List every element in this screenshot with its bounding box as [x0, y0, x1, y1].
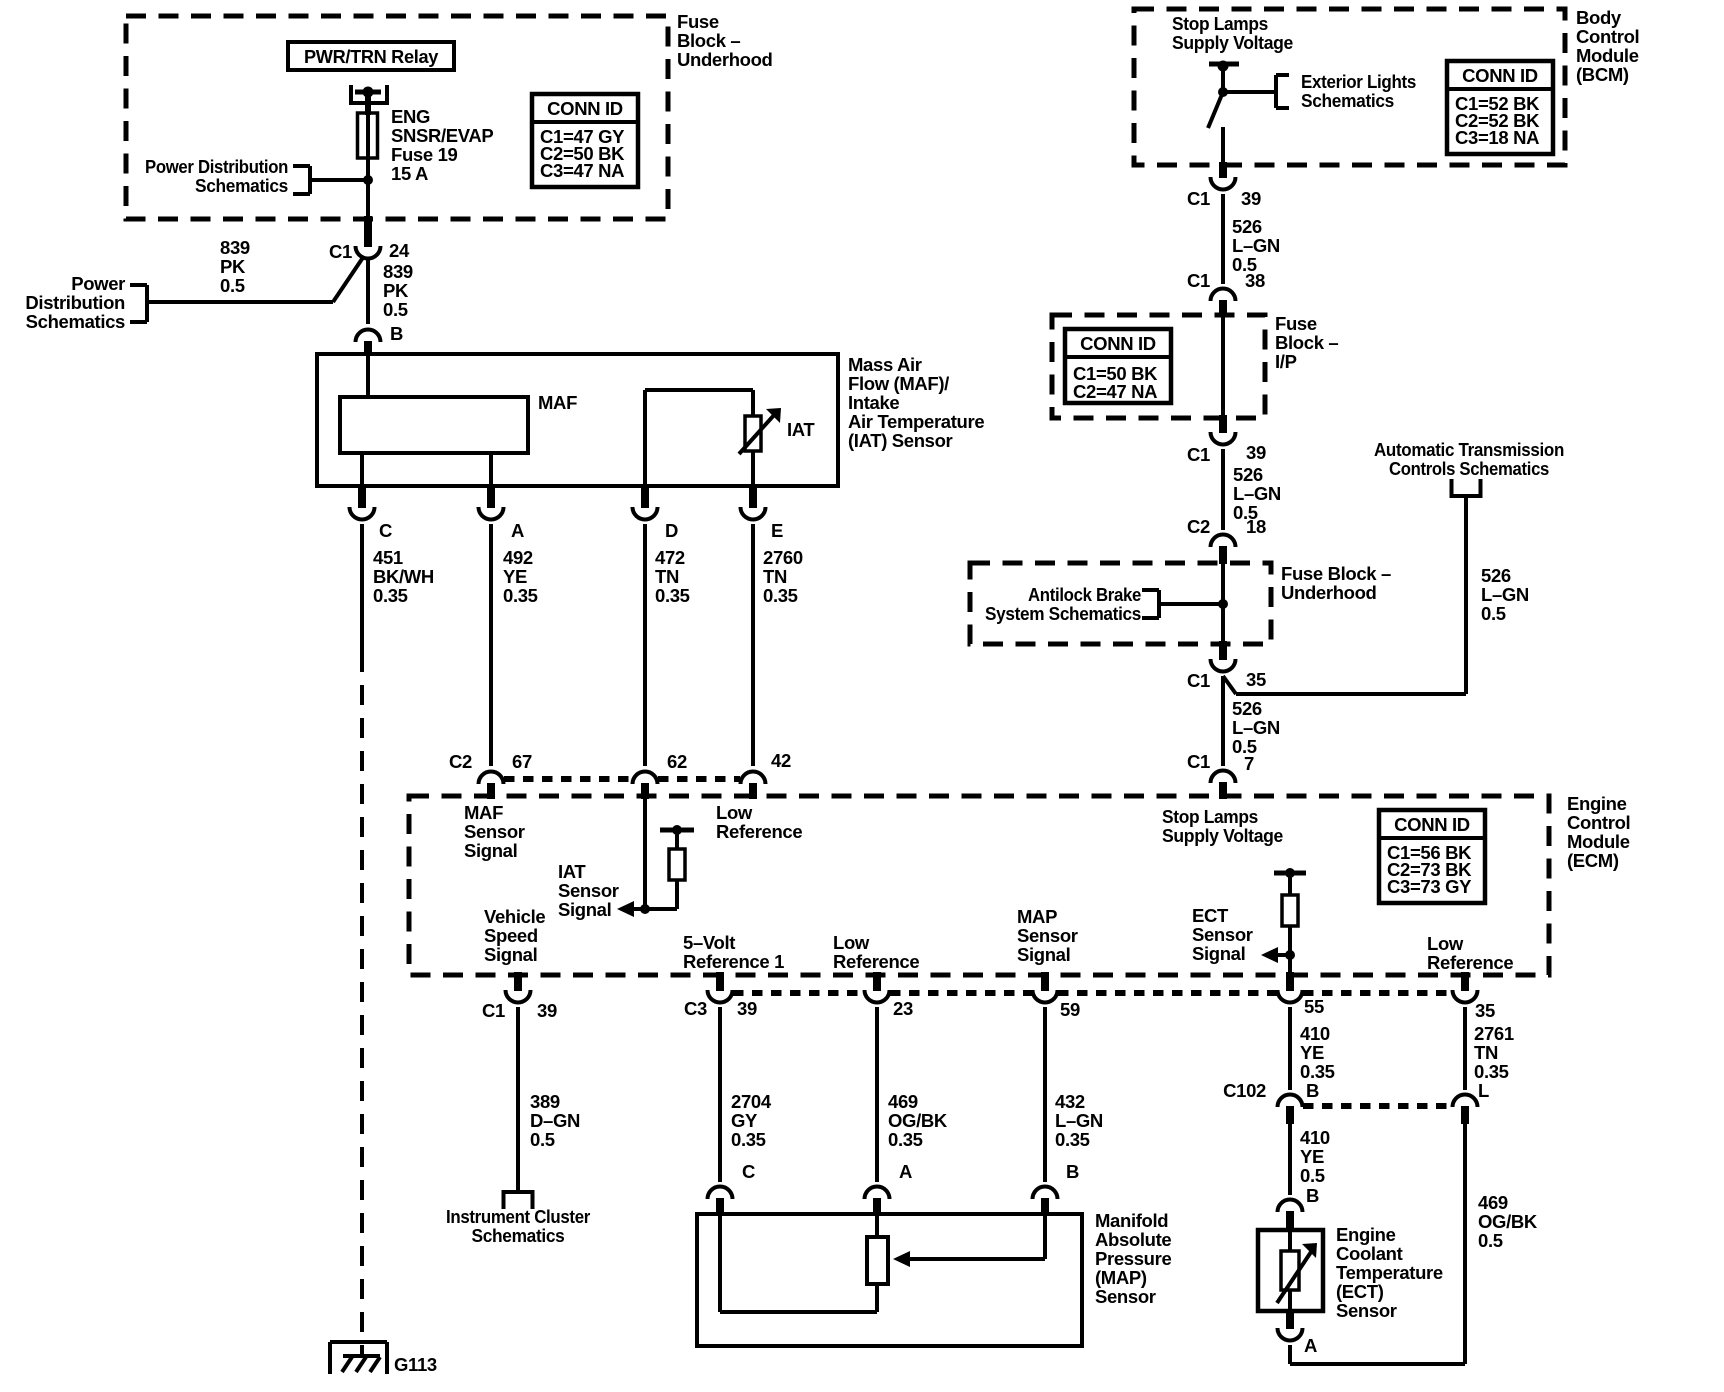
svg-text:Fuse: Fuse [1275, 313, 1317, 334]
net label IAT Sensor Signal [558, 861, 619, 920]
connector C1 pin 35 [1187, 659, 1266, 691]
connector bus ECM bottom row [733, 990, 1452, 996]
svg-text:PWR/TRN Relay: PWR/TRN Relay [304, 46, 439, 67]
connector ECT pin B [1278, 1185, 1320, 1232]
svg-text:389: 389 [530, 1091, 560, 1112]
svg-text:D: D [665, 520, 678, 541]
wire 472 TN to ECM [643, 524, 647, 766]
svg-text:469: 469 [888, 1091, 918, 1112]
svg-text:Fuse 19: Fuse 19 [391, 144, 458, 165]
wire ABS tap [1159, 602, 1223, 606]
svg-text:Reference: Reference [716, 821, 802, 842]
svg-text:L: L [1478, 1080, 1489, 1101]
svg-text:C1: C1 [1187, 188, 1210, 209]
svg-text:451: 451 [373, 547, 403, 568]
svg-text:Sensor: Sensor [464, 821, 525, 842]
svg-text:Control: Control [1567, 812, 1630, 833]
svg-text:35: 35 [1246, 669, 1266, 690]
svg-text:839: 839 [383, 261, 413, 282]
svg-text:39: 39 [737, 998, 757, 1019]
fuse block underhood (ABS) module box [970, 563, 1271, 644]
svg-text:A: A [1304, 1335, 1317, 1356]
off-page ref Power Distribution Schematics (fuse block) [145, 156, 310, 196]
svg-text:Power: Power [71, 273, 125, 294]
svg-text:Intake: Intake [848, 392, 899, 413]
svg-text:24: 24 [389, 240, 410, 261]
svg-text:18: 18 [1246, 516, 1266, 537]
svg-text:Manifold: Manifold [1095, 1210, 1168, 1231]
svg-text:A: A [899, 1161, 912, 1182]
svg-text:62: 62 [667, 751, 687, 772]
svg-text:Signal: Signal [1017, 944, 1070, 965]
body control module box [1134, 9, 1565, 165]
svg-text:B: B [1306, 1185, 1319, 1206]
svg-text:39: 39 [1241, 188, 1261, 209]
svg-text:0.35: 0.35 [731, 1129, 766, 1150]
svg-text:Stop Lamps: Stop Lamps [1162, 806, 1258, 827]
svg-text:Vehicle: Vehicle [484, 906, 545, 927]
svg-text:C3: C3 [684, 998, 707, 1019]
thermistor ECT [1277, 1230, 1317, 1311]
wire MAF pin A internal [489, 453, 493, 486]
svg-text:0.5: 0.5 [1481, 603, 1506, 624]
svg-text:Distribution: Distribution [25, 292, 125, 313]
svg-text:67: 67 [512, 751, 532, 772]
svg-text:IAT: IAT [558, 861, 586, 882]
svg-text:526: 526 [1232, 698, 1262, 719]
wire 451 BK/WH solid segment [360, 524, 364, 652]
svg-text:59: 59 [1060, 999, 1080, 1020]
switch blade [1208, 92, 1223, 128]
MAF element box [340, 392, 577, 453]
svg-text:C2=47 NA: C2=47 NA [1073, 381, 1157, 402]
junction dot ECT signal [1285, 950, 1295, 960]
svg-text:Sensor: Sensor [1095, 1286, 1156, 1307]
svg-text:C1: C1 [1187, 670, 1210, 691]
connector C2 pin 67 [449, 751, 532, 799]
svg-text:Engine: Engine [1567, 793, 1627, 814]
relay K terminal posts [351, 85, 387, 105]
svg-text:Stop Lamps: Stop Lamps [1172, 13, 1268, 34]
net label ECT Sensor Signal [1192, 905, 1253, 964]
fuse block underhood module box [126, 16, 668, 219]
svg-text:0.5: 0.5 [1300, 1165, 1325, 1186]
svg-text:C3=18 NA: C3=18 NA [1455, 127, 1539, 148]
connector C1 pin 39 (IP out) [1187, 432, 1266, 465]
wire label 472 TN 0.35 [655, 547, 690, 606]
svg-text:Absolute: Absolute [1095, 1229, 1171, 1250]
connector C1 pin 24 [329, 240, 410, 262]
svg-text:39: 39 [537, 1000, 557, 1021]
wire label 526 L-GN 0.5 (BCM to IP) [1232, 216, 1280, 275]
wire label 451 BK/WH 0.35 [373, 547, 434, 606]
wire label 839 PK 0.5 (branch) [220, 237, 250, 296]
svg-text:Reference 1: Reference 1 [683, 951, 784, 972]
wire label 410 YE 0.5 [1300, 1127, 1330, 1186]
svg-text:C2: C2 [449, 751, 472, 772]
fuse block IP conn id table [1065, 329, 1171, 403]
svg-text:Speed: Speed [484, 925, 538, 946]
net label 5-Volt Reference 1 [683, 932, 784, 972]
connector ECT pin A [1278, 1311, 1318, 1356]
svg-text:Low: Low [833, 932, 870, 953]
IAT top wire [645, 388, 753, 392]
svg-text:23: 23 [893, 998, 913, 1019]
svg-text:GY: GY [731, 1110, 758, 1131]
wire label 2760 TN 0.35 [763, 547, 803, 606]
net label Stop Lamps Supply Voltage (ECM) [1162, 806, 1283, 846]
wire IAT pin D internal [643, 390, 647, 486]
svg-text:42: 42 [771, 750, 791, 771]
svg-text:C1: C1 [1187, 444, 1210, 465]
wire label 2704 GY 0.35 [731, 1091, 772, 1150]
svg-text:C1: C1 [1187, 751, 1210, 772]
svg-text:Underhood: Underhood [677, 49, 773, 70]
svg-text:410: 410 [1300, 1127, 1330, 1148]
svg-text:0.35: 0.35 [763, 585, 798, 606]
svg-text:0.35: 0.35 [1300, 1061, 1335, 1082]
junction dot IAT signal [640, 904, 650, 914]
sensor label Mass Air Flow (MAF)/ Intake Air Temperature (IAT) Sensor [848, 354, 984, 451]
wire MAP pin B internal [1043, 1214, 1047, 1259]
wire to exterior lights [1223, 90, 1276, 94]
svg-text:Block –: Block – [1275, 332, 1338, 353]
svg-text:Schematics: Schematics [1301, 90, 1394, 111]
wire label 389 D-GN 0.5 [530, 1091, 580, 1150]
svg-text:L–GN: L–GN [1233, 483, 1281, 504]
wire label 469 OG/BK 0.5 [1478, 1192, 1538, 1251]
engine control module box [409, 796, 1549, 975]
svg-text:MAF: MAF [538, 392, 577, 413]
relay K PWR/TRN Relay label box [288, 42, 454, 70]
fuse F19 ENG SNSR/EVAP 15A [358, 113, 378, 158]
junction dot fuse wire [363, 175, 373, 185]
module label Body Control Module (BCM) [1576, 7, 1639, 85]
svg-text:15 A: 15 A [391, 163, 428, 184]
svg-text:0.5: 0.5 [1478, 1230, 1503, 1251]
wire power distribution tap [310, 178, 368, 182]
svg-text:System Schematics: System Schematics [985, 603, 1141, 624]
svg-text:Pressure: Pressure [1095, 1248, 1171, 1269]
wire ECT return loop [1290, 1124, 1465, 1364]
off-page ref Instrument Cluster Schematics [446, 1192, 590, 1246]
net label Low Reference (pin 35) [1427, 933, 1513, 973]
svg-text:TN: TN [655, 566, 679, 587]
svg-text:A: A [511, 520, 524, 541]
svg-text:5–Volt: 5–Volt [683, 932, 735, 953]
svg-text:0.35: 0.35 [888, 1129, 923, 1150]
svg-text:L–GN: L–GN [1232, 717, 1280, 738]
fuse block underhood conn id table [532, 94, 638, 187]
svg-text:0.35: 0.35 [1474, 1061, 1509, 1082]
wire 526 segment 2 [1221, 449, 1225, 530]
module label Engine Control Module (ECM) [1567, 793, 1630, 871]
svg-text:(MAP): (MAP) [1095, 1267, 1147, 1288]
connector MAP pin B [1033, 1161, 1080, 1216]
pull-up resistor IAT [660, 825, 694, 909]
svg-text:L–GN: L–GN [1481, 584, 1529, 605]
svg-text:Signal: Signal [484, 944, 537, 965]
wire label 526 L-GN 0.5 (ATC) [1481, 565, 1529, 624]
wire through fuse block IP [1221, 317, 1225, 433]
svg-text:410: 410 [1300, 1023, 1330, 1044]
wire 451 BK/WH dashed segment to ground [360, 652, 364, 1356]
fuse block IP module box [1052, 315, 1265, 418]
svg-text:Supply Voltage: Supply Voltage [1172, 32, 1293, 53]
module label Fuse Block - I/P [1275, 313, 1338, 372]
svg-text:7: 7 [1244, 753, 1254, 774]
svg-text:BK/WH: BK/WH [373, 566, 434, 587]
svg-text:Reference: Reference [1427, 952, 1513, 973]
sensor label Manifold Absolute Pressure (MAP) Sensor [1095, 1210, 1171, 1307]
svg-text:526: 526 [1481, 565, 1511, 586]
off-page ref Power Distribution Schematics (left) [25, 273, 147, 332]
wire switch to C1-39 [1221, 127, 1225, 178]
svg-text:C102: C102 [1223, 1080, 1266, 1101]
svg-text:Sensor: Sensor [1336, 1300, 1397, 1321]
module label Fuse Block - Underhood [677, 11, 773, 70]
svg-text:Automatic Transmission: Automatic Transmission [1374, 439, 1564, 460]
wire B into MAF element [366, 356, 370, 397]
ECT sensor box [1258, 1230, 1323, 1311]
fuse value label ENG SNSR/EVAP Fuse 19 15 A [391, 106, 493, 184]
svg-text:0.35: 0.35 [1055, 1129, 1090, 1150]
svg-text:MAP: MAP [1017, 906, 1057, 927]
svg-text:Air Temperature: Air Temperature [848, 411, 984, 432]
wire 492 YE to ECM [489, 524, 493, 766]
net label MAF Sensor Signal [464, 802, 525, 861]
svg-text:Sensor: Sensor [1192, 924, 1253, 945]
svg-text:C3=73 GY: C3=73 GY [1387, 876, 1472, 897]
connector C102 pin L [1453, 1080, 1490, 1124]
svg-text:C1: C1 [482, 1000, 505, 1021]
svg-text:ENG: ENG [391, 106, 430, 127]
wire through fuse block underhood [1221, 564, 1225, 660]
connector bus C2 row [504, 776, 740, 782]
connector pin 35 [1453, 972, 1495, 1021]
svg-text:839: 839 [220, 237, 250, 258]
svg-text:2761: 2761 [1474, 1023, 1514, 1044]
svg-text:Antilock Brake: Antilock Brake [1028, 584, 1141, 605]
svg-text:(ECT): (ECT) [1336, 1281, 1384, 1302]
connector pin A [479, 486, 525, 541]
svg-text:Schematics: Schematics [26, 311, 125, 332]
junction dot ABS tap [1218, 599, 1228, 609]
svg-text:Mass Air: Mass Air [848, 354, 922, 375]
module label Fuse Block - Underhood [1281, 563, 1391, 603]
svg-text:C1: C1 [1187, 270, 1210, 291]
svg-text:Controls Schematics: Controls Schematics [1389, 458, 1549, 479]
wire 2760 TN to ECM [751, 524, 755, 766]
connector C102 pin B [1223, 1080, 1319, 1124]
connector MAP pin A [865, 1161, 913, 1216]
svg-text:2760: 2760 [763, 547, 803, 568]
svg-text:E: E [771, 520, 783, 541]
BCM conn id table [1447, 61, 1553, 154]
connector C1 pin 39 (vehicle speed) [482, 972, 557, 1021]
svg-text:Signal: Signal [1192, 943, 1245, 964]
wire label 410 YE 0.35 [1300, 1023, 1335, 1082]
svg-text:TN: TN [763, 566, 787, 587]
svg-text:I/P: I/P [1275, 351, 1297, 372]
ground G113 [330, 1342, 437, 1375]
svg-text:39: 39 [1246, 442, 1266, 463]
svg-text:Schematics: Schematics [472, 1225, 565, 1246]
svg-text:Signal: Signal [464, 840, 517, 861]
wire MAP pin C internal [720, 1214, 877, 1312]
svg-text:0.35: 0.35 [655, 585, 690, 606]
connector MAP pin C [708, 1161, 756, 1216]
svg-text:YE: YE [1300, 1146, 1324, 1167]
svg-text:ECT: ECT [1192, 905, 1229, 926]
wire IAT signal inside ECM [643, 799, 647, 909]
svg-text:CONN ID: CONN ID [1462, 65, 1538, 86]
svg-text:(BCM): (BCM) [1576, 64, 1629, 85]
connector pin C [350, 486, 393, 541]
svg-text:Underhood: Underhood [1281, 582, 1377, 603]
svg-text:Module: Module [1576, 45, 1639, 66]
svg-text:2704: 2704 [731, 1091, 772, 1112]
svg-text:B: B [390, 323, 403, 344]
svg-text:MAF: MAF [464, 802, 503, 823]
svg-text:Engine: Engine [1336, 1224, 1396, 1245]
svg-text:C: C [379, 520, 392, 541]
wire label 492 YE 0.35 [503, 547, 538, 606]
off-page ref Automatic Transmission Controls Schematics [1374, 439, 1564, 496]
svg-text:CONN ID: CONN ID [547, 98, 623, 119]
svg-text:B: B [1306, 1080, 1319, 1101]
wire C1-24 to connector B [366, 258, 370, 324]
svg-text:0.35: 0.35 [373, 585, 408, 606]
svg-text:Fuse: Fuse [677, 11, 719, 32]
net label Stop Lamps Supply Voltage (BCM) [1172, 13, 1293, 53]
svg-text:472: 472 [655, 547, 685, 568]
svg-text:L–GN: L–GN [1232, 235, 1280, 256]
svg-text:L–GN: L–GN [1055, 1110, 1103, 1131]
wire label 432 L-GN 0.35 [1055, 1091, 1103, 1150]
connector pin E [741, 486, 784, 541]
connector pin 23 [865, 972, 913, 1019]
wire fuse to connector C1 [366, 158, 370, 247]
svg-text:B: B [1066, 1161, 1079, 1182]
svg-text:Coolant: Coolant [1336, 1243, 1403, 1264]
svg-text:Schematics: Schematics [195, 175, 288, 196]
connector C1 pin 7 [1187, 751, 1254, 799]
wire label 839 PK 0.5 (to MAF) [383, 261, 413, 320]
svg-text:C1: C1 [329, 241, 352, 262]
wire from ATC [1236, 496, 1466, 694]
wire ECT signal arrow [1261, 947, 1290, 963]
svg-text:OG/BK: OG/BK [888, 1110, 948, 1131]
junction dot switch [1218, 87, 1228, 97]
svg-text:526: 526 [1232, 216, 1262, 237]
svg-text:CONN ID: CONN ID [1394, 814, 1470, 835]
wire switch [1221, 64, 1225, 92]
svg-text:35: 35 [1475, 1000, 1495, 1021]
potentiometer MAP [867, 1214, 888, 1312]
svg-text:CONN ID: CONN ID [1080, 333, 1156, 354]
net label MAP Sensor Signal [1017, 906, 1078, 965]
net label Low Reference (MAP) [833, 932, 919, 972]
svg-text:YE: YE [1300, 1042, 1324, 1063]
svg-text:PK: PK [220, 256, 246, 277]
net label Vehicle Speed Signal [484, 906, 545, 965]
svg-text:C: C [742, 1161, 755, 1182]
connector C1 pin 38 [1187, 270, 1265, 317]
svg-text:D–GN: D–GN [530, 1110, 580, 1131]
svg-text:Power Distribution: Power Distribution [145, 156, 288, 177]
svg-text:G113: G113 [394, 1354, 437, 1375]
svg-text:492: 492 [503, 547, 533, 568]
wire label 526 L-GN 0.5 (IP to underhood) [1233, 464, 1281, 523]
MAP wiper arrow [893, 1251, 1045, 1267]
svg-text:Low: Low [1427, 933, 1464, 954]
svg-text:432: 432 [1055, 1091, 1085, 1112]
ECM conn id table [1379, 810, 1485, 903]
svg-text:(IAT) Sensor: (IAT) Sensor [848, 430, 953, 451]
svg-text:Low: Low [716, 802, 753, 823]
connector pin D [633, 486, 679, 541]
svg-text:IAT: IAT [787, 419, 815, 440]
svg-text:526: 526 [1233, 464, 1263, 485]
switch supply bar [1209, 61, 1239, 72]
wire MAF pin C internal [360, 453, 364, 486]
connector C2 pin 18 [1187, 516, 1266, 564]
off-page ref Exterior Lights Schematics [1276, 71, 1416, 111]
svg-text:Temperature: Temperature [1336, 1262, 1443, 1283]
off-page ref Antilock Brake System Schematics [985, 584, 1159, 624]
svg-text:C3=47 NA: C3=47 NA [540, 160, 624, 181]
svg-text:Sensor: Sensor [1017, 925, 1078, 946]
wire label 469 OG/BK 0.35 [888, 1091, 948, 1150]
svg-text:0.5: 0.5 [220, 275, 245, 296]
wire relay to fuse [365, 92, 371, 115]
svg-text:C2: C2 [1187, 516, 1210, 537]
svg-text:SNSR/EVAP: SNSR/EVAP [391, 125, 493, 146]
sensor label Engine Coolant Temperature (ECT) Sensor [1336, 1224, 1443, 1321]
svg-text:Reference: Reference [833, 951, 919, 972]
wire 389 D-GN to instrument cluster [516, 1007, 520, 1192]
connector pin 42 [741, 750, 791, 799]
svg-text:Signal: Signal [558, 899, 611, 920]
svg-text:TN: TN [1474, 1042, 1498, 1063]
wire IAT signal arrow [617, 901, 677, 917]
svg-text:OG/BK: OG/BK [1478, 1211, 1538, 1232]
wire branch to power distribution [148, 256, 364, 302]
svg-text:(ECM): (ECM) [1567, 850, 1619, 871]
wire 2704 GY [718, 1007, 722, 1182]
svg-text:YE: YE [503, 566, 527, 587]
connector bus C102 [1303, 1103, 1452, 1109]
wire merge ATC into 526 [1223, 676, 1236, 694]
net label Low Reference (IAT) [716, 802, 802, 842]
connector C1 pin 39 (BCM) [1187, 177, 1261, 209]
svg-text:Module: Module [1567, 831, 1630, 852]
svg-text:0.5: 0.5 [383, 299, 408, 320]
connector B of MAF sensor [356, 323, 404, 356]
wire 526 segment 1 [1221, 194, 1225, 284]
thermistor IAT [739, 390, 815, 486]
svg-text:Sensor: Sensor [558, 880, 619, 901]
svg-text:Flow (MAF)/: Flow (MAF)/ [848, 373, 949, 394]
svg-text:Exterior Lights: Exterior Lights [1301, 71, 1416, 92]
svg-text:Fuse Block –: Fuse Block – [1281, 563, 1391, 584]
connector pin 62 [633, 751, 687, 799]
pull-up resistor ECT [1274, 868, 1306, 975]
connector C3 pin 39 [684, 972, 757, 1019]
svg-text:0.5: 0.5 [530, 1129, 555, 1150]
wire label 526 L-GN 0.5 (to ECM) [1232, 698, 1280, 757]
